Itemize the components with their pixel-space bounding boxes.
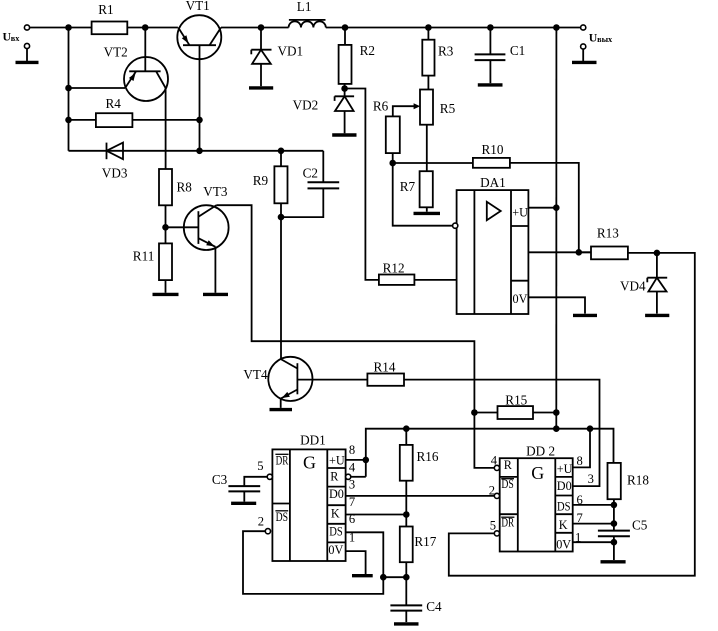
ground input (24, 43, 29, 48)
capacitor C5 (598, 530, 630, 532)
ground DA1 (573, 314, 597, 317)
svg-text:DA1: DA1 (480, 175, 506, 190)
node junction output/R13 feedback (576, 250, 581, 255)
wire R6 to DA1 inverting input (393, 163, 454, 226)
svg-text:6: 6 (577, 493, 583, 507)
resistor R16 (405, 429, 407, 445)
resistor R17 (400, 527, 413, 563)
svg-text:R7: R7 (400, 179, 416, 194)
wire DD2 pin 8 +U (573, 429, 590, 468)
svg-text:DD 2: DD 2 (526, 444, 555, 459)
node junction R2/VD2 (342, 86, 347, 91)
ground VD2 (332, 133, 356, 136)
svg-text:+U: +U (557, 462, 573, 476)
wire VT3 collector (216, 205, 494, 468)
node junction VD3 line / R9 (279, 148, 284, 153)
IC DD2 box (500, 458, 573, 551)
node junction (66, 118, 71, 123)
wire (127, 27, 178, 29)
wire VT4 emitter to ground (280, 399, 282, 408)
terminal Uvyx output (581, 25, 586, 30)
svg-text:1: 1 (349, 531, 355, 545)
resistor R18 (608, 463, 621, 499)
svg-text:VD3: VD3 (102, 166, 128, 181)
wire (165, 280, 167, 293)
ground R7 (414, 212, 441, 215)
svg-text:4: 4 (491, 454, 498, 468)
wire DD2 pin 6 DS (573, 504, 614, 506)
svg-text:C2: C2 (303, 166, 318, 181)
svg-text:R11: R11 (133, 249, 155, 264)
node junction +U rail (554, 205, 559, 210)
svg-text:+U: +U (512, 206, 528, 220)
svg-text:D0: D0 (557, 479, 572, 493)
svg-text:C5: C5 (632, 518, 648, 533)
node junction (197, 118, 202, 123)
svg-text:7: 7 (577, 511, 583, 525)
svg-text:R13: R13 (597, 226, 619, 241)
svg-text:8: 8 (577, 454, 583, 468)
svg-text:2: 2 (489, 484, 495, 498)
wire DD1 pin 6 DS loop to pin 2 (243, 531, 383, 594)
ground R11 (153, 293, 179, 296)
transistor VT3 (184, 205, 229, 250)
svg-text:0V: 0V (556, 538, 571, 552)
ground VT3 (203, 293, 228, 296)
ground C5 (601, 560, 626, 563)
pin DD1 pin 4 R circle (346, 474, 351, 479)
ground C1 (478, 83, 503, 86)
svg-text:DS: DS (276, 510, 289, 524)
resistor R7 (420, 171, 433, 207)
svg-text:2: 2 (258, 515, 264, 529)
resistor R11 (159, 243, 172, 280)
node junction bus/R16 (404, 426, 409, 431)
wire DD1 pin 7 K (346, 514, 407, 516)
svg-text:7: 7 (349, 495, 355, 509)
svg-text:5: 5 (257, 459, 263, 473)
svg-text:VD4: VD4 (620, 279, 646, 294)
svg-text:K: K (559, 518, 568, 532)
svg-text:VT3: VT3 (203, 184, 228, 199)
ground DD1 0V (352, 574, 373, 577)
transistor VT4 (268, 357, 312, 401)
node junction input rail (66, 25, 71, 30)
svg-text:R: R (330, 470, 339, 484)
capacitor C4 (390, 604, 422, 606)
wire R2 bottom to R12 (345, 89, 379, 280)
svg-text:VT2: VT2 (104, 45, 128, 60)
node junction (66, 86, 71, 91)
resistor R8 (159, 169, 172, 205)
wire R14 right to DD2 D0 (404, 380, 600, 487)
wire (69, 119, 96, 121)
resistor R5 potentiometer (420, 90, 433, 125)
svg-text:R8: R8 (177, 180, 193, 195)
svg-text:R: R (504, 458, 513, 472)
wire VT1 base down (199, 45, 201, 151)
wire VT1 collector to L1 (221, 27, 289, 29)
svg-text:0V: 0V (513, 292, 528, 306)
svg-text:VD1: VD1 (278, 44, 304, 59)
svg-text:C4: C4 (426, 599, 442, 614)
svg-text:R12: R12 (383, 261, 405, 276)
diode VD3 (69, 150, 324, 152)
resistor R6 (386, 116, 400, 153)
wire DA1 output (528, 251, 591, 253)
diode VD1 zener (259, 25, 264, 30)
wire DA1 0V pin to ground (528, 297, 585, 313)
transistor VT1 (177, 15, 221, 59)
op-amp DA1 (457, 190, 529, 314)
svg-text:R4: R4 (106, 96, 122, 111)
wire DD2 pin 1 0V (573, 541, 614, 543)
svg-text:R6: R6 (373, 99, 389, 114)
svg-text:+U: +U (329, 454, 345, 468)
svg-text:DS: DS (557, 500, 571, 514)
svg-text:R16: R16 (417, 449, 439, 464)
ground C3 (231, 502, 256, 505)
resistor R13 (579, 251, 591, 253)
svg-text:8: 8 (349, 443, 355, 457)
svg-text:R9: R9 (253, 173, 269, 188)
capacitor C2 (322, 151, 324, 183)
svg-text:DS: DS (329, 525, 343, 539)
resistor R3 (426, 25, 431, 30)
terminal Uvx input (24, 25, 29, 30)
svg-text:4: 4 (349, 461, 356, 475)
svg-text:VT4: VT4 (243, 367, 268, 382)
svg-text:VT1: VT1 (186, 0, 210, 13)
wire R12 to DA1 (414, 279, 456, 281)
svg-text:K: K (331, 507, 340, 521)
wire R9/C2 down to VT4 collector (280, 217, 282, 359)
node junction VT2 base (143, 25, 148, 30)
wire (132, 119, 199, 121)
svg-text:1: 1 (575, 531, 581, 545)
node junction bus/+U rail (554, 426, 559, 431)
wire DD2 pin 7 K (573, 523, 614, 525)
svg-text:0V: 0V (328, 543, 343, 557)
svg-text:G: G (531, 463, 544, 483)
ground VD4 (645, 314, 669, 317)
node junction R8/R11/VT3 base (163, 225, 168, 230)
svg-text:R3: R3 (438, 44, 454, 59)
wire (326, 27, 581, 29)
wire DD1 pin 3 D0 to DD2 pin 2 (346, 495, 495, 497)
svg-text:DD1: DD1 (300, 433, 326, 448)
node junction R6 bottom (390, 161, 395, 166)
ground output (581, 44, 586, 49)
svg-text:3: 3 (588, 472, 594, 486)
svg-text:R1: R1 (98, 2, 113, 17)
resistor R9 (280, 151, 282, 167)
wire feedback R10 right (510, 163, 579, 252)
svg-text:вых: вых (597, 35, 613, 44)
wire +U rail vertical (555, 28, 557, 429)
wire (30, 27, 92, 29)
svg-text:C1: C1 (510, 43, 525, 58)
pin DD1 pin 5 DR circle (267, 474, 272, 479)
pin DD2 pin 4 R circle (494, 465, 499, 470)
capacitor C3 (228, 485, 260, 487)
wire DD1 pin 1 0V to ground (346, 551, 366, 574)
node junction R17/C4/DS loop (404, 575, 409, 580)
svg-text:C3: C3 (212, 472, 228, 487)
wire VT2 emitter (69, 87, 126, 89)
resistor R4 (96, 113, 132, 127)
wire VT3 emitter to ground (214, 247, 216, 293)
pin DD2 pin 2 DS circle (494, 493, 499, 498)
wire main bus y428 (366, 429, 614, 477)
wire R15 left (474, 412, 497, 414)
resistor R1 (92, 22, 128, 35)
node DA1 inverting input circle (453, 223, 458, 228)
IC DD1 box (272, 449, 345, 561)
resistor R10 (473, 158, 510, 168)
resistor R12 (379, 275, 415, 285)
wire R13 right (449, 253, 695, 576)
node junction bus/DD2 pin8 (588, 426, 593, 431)
svg-text:R17: R17 (414, 534, 436, 549)
node junction VD3 line / VT1 base (197, 148, 202, 153)
svg-text:D0: D0 (329, 487, 344, 501)
resistor R15 (498, 406, 534, 419)
wire DD1 pin 5 to C3 (244, 477, 267, 486)
pin DD1 pin 2 DS circle (265, 529, 270, 534)
wire left rail (68, 28, 70, 151)
wire DD1 pin 4 (351, 476, 366, 478)
node junction output rail (554, 25, 559, 30)
svg-text:L1: L1 (297, 0, 312, 14)
ground VT4 (270, 408, 293, 411)
svg-text:6: 6 (349, 512, 355, 526)
inductor L1 (289, 21, 326, 27)
wire (165, 205, 167, 243)
wire R15 right (533, 412, 556, 414)
svg-text:R2: R2 (360, 43, 375, 58)
resistor R2 (343, 25, 348, 30)
svg-text:R18: R18 (627, 473, 649, 488)
wire DA1 +U pin (528, 207, 556, 209)
wire R6 to R10 (393, 162, 473, 164)
svg-text:R5: R5 (440, 101, 456, 116)
transistor VT2 (124, 57, 168, 101)
capacitor C1 (488, 25, 493, 30)
node junction K/R16/R17 (404, 512, 409, 517)
diode VD2 zener (335, 95, 355, 97)
svg-text:VD2: VD2 (293, 98, 319, 113)
svg-text:DR: DR (276, 454, 289, 468)
diode VD4 zener (656, 253, 658, 278)
resistor R14 (367, 374, 404, 386)
pin DD2 pin 5 DR circle (494, 531, 499, 536)
svg-text:R14: R14 (374, 360, 396, 375)
node junction R9/C2 bottom (279, 215, 284, 220)
node junction DD1 pins 8-4 (363, 458, 368, 463)
svg-text:R10: R10 (482, 142, 504, 157)
ground VD1 (249, 86, 273, 89)
svg-text:5: 5 (490, 519, 496, 533)
wire VT2 collector down to R8 (165, 88, 167, 169)
node junction R13/VD4 (655, 251, 660, 256)
svg-text:вх: вх (11, 34, 20, 43)
ground C4 (394, 622, 419, 625)
svg-text:R15: R15 (505, 393, 527, 408)
svg-text:G: G (303, 453, 316, 473)
wire (383, 576, 406, 578)
svg-text:3: 3 (349, 478, 355, 492)
wire DD1 pin 8 +U (346, 459, 366, 461)
